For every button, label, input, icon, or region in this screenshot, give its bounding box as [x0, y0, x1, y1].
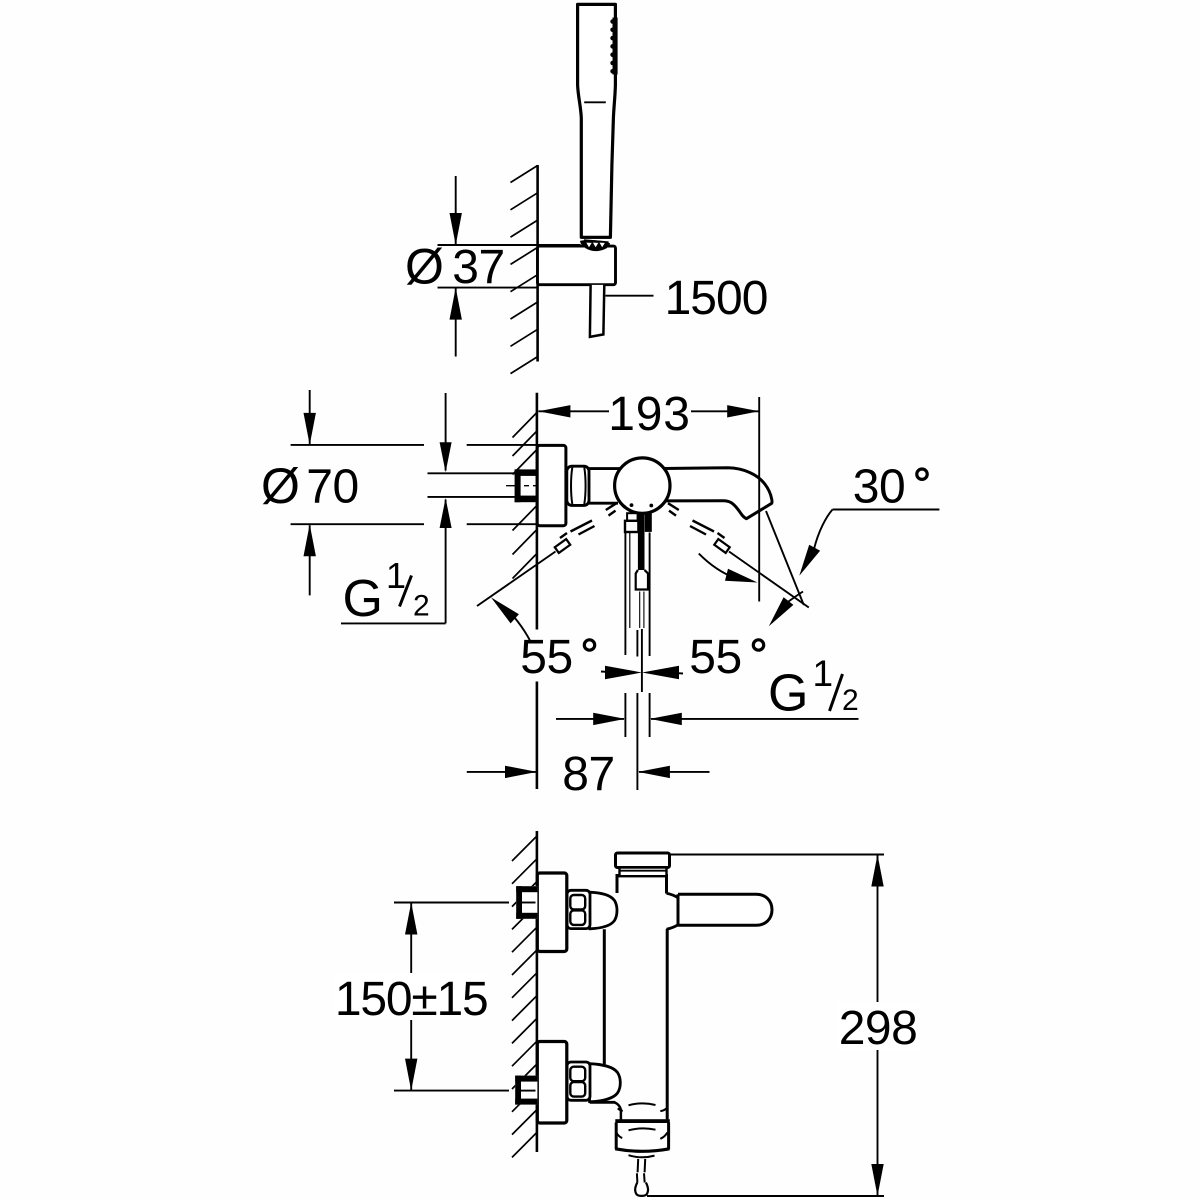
- label 150±15: [334, 973, 489, 1026]
- dimension 87: [467, 766, 710, 778]
- dimension Ø70 extension lines: [291, 445, 537, 524]
- svg-text:30: 30: [853, 461, 905, 514]
- G1/2 inlet dimension riser and arrows: [341, 393, 452, 623]
- svg-text:1: 1: [813, 653, 834, 694]
- right 55° arc with arrowhead: [699, 554, 758, 583]
- lower hex union (front): [567, 1062, 590, 1100]
- check valve dome tip: [629, 1155, 655, 1157]
- svg-text:55: 55: [520, 631, 572, 684]
- inlet pipe centerline: [506, 485, 540, 487]
- shower head spray strip (serrated): [610, 18, 617, 75]
- svg-text:55: 55: [689, 631, 741, 684]
- label 87: [562, 748, 614, 801]
- svg-text:37: 37: [452, 241, 504, 294]
- shower holder bracket: [538, 246, 616, 285]
- ball joint pivot dots: [630, 503, 654, 507]
- label 193: [608, 388, 691, 441]
- label 298: [836, 1002, 921, 1055]
- inlet pipe lines: [428, 473, 515, 497]
- hose nipple bulb: [635, 1183, 648, 1196]
- wall line (side view): [536, 393, 539, 789]
- diverter collar: [625, 513, 652, 532]
- shower hose: [590, 285, 604, 337]
- top cap: [616, 853, 670, 868]
- escutcheon (side view): [537, 445, 566, 525]
- label G1/2 (outlet): [768, 653, 859, 723]
- hose nipple stem: [637, 1159, 645, 1183]
- svg-text:2: 2: [842, 684, 859, 717]
- wall hatching (front view): [512, 836, 537, 1157]
- label 55° right: [689, 631, 763, 684]
- wall hatching (side view): [513, 413, 537, 579]
- hand shower body: [578, 4, 616, 237]
- internal seat (dashed ellipse lower): [617, 1128, 668, 1138]
- wall line (front view): [536, 831, 539, 1152]
- svg-text:298: 298: [839, 1002, 918, 1055]
- spout: [663, 468, 772, 519]
- label Ø37: [405, 239, 505, 295]
- S-union hex nut (side view): [567, 466, 589, 505]
- label G1/2 (inlet): [343, 555, 430, 628]
- svg-text:Ø: Ø: [405, 239, 444, 295]
- upper hex union (front): [567, 890, 590, 928]
- svg-text:G: G: [343, 570, 383, 628]
- lever neck: [667, 893, 679, 929]
- label 30°: [853, 461, 927, 514]
- body main cylinder: [604, 929, 667, 1119]
- internal seat (dashed ellipse upper): [618, 1103, 667, 1111]
- cap ring: [620, 868, 667, 877]
- outlet extension lines under faucet: [625, 533, 649, 791]
- lower union nut (front): [515, 1076, 537, 1105]
- svg-text:1500: 1500: [665, 272, 768, 325]
- dimension 150±15 arrows: [405, 903, 417, 1091]
- svg-text:1: 1: [386, 555, 406, 596]
- svg-text:87: 87: [562, 748, 614, 801]
- wall line (top view): [536, 165, 539, 362]
- 30° leader line and arrow: [799, 510, 939, 576]
- dimension 150±15 extension lines: [394, 903, 536, 1091]
- holder cup (hatched cone seat): [581, 240, 609, 250]
- dimension Ø37 extension lines: [438, 245, 581, 288]
- label 55° left: [520, 631, 594, 684]
- faucet body tube (side view): [589, 469, 620, 504]
- label 1500: [665, 272, 768, 325]
- right shower-hose direction line (55°): [668, 503, 809, 607]
- dimension Ø70 arrows: [304, 390, 316, 595]
- dimension Ø37 arrows: [450, 176, 462, 357]
- body bottom ledge: [590, 1102, 621, 1120]
- wall hatching (top view): [511, 166, 538, 374]
- 55°/55° angle arc arrowheads (bowtie): [601, 666, 683, 679]
- handle bottom edge: [581, 237, 610, 239]
- aerator housing joint band: [615, 1119, 670, 1123]
- diverter pull rod: [636, 513, 648, 589]
- label 1500 leader line: [606, 295, 654, 297]
- svg-text:150±15: 150±15: [335, 973, 488, 1026]
- ball joint circle: [615, 458, 670, 513]
- union nut (side view): [515, 469, 538, 502]
- dimension G1/2 (outlet): [556, 713, 859, 725]
- dimension 193: [538, 397, 759, 602]
- shower head grip separation line: [584, 101, 606, 103]
- svg-text:2: 2: [413, 590, 430, 623]
- label Ø70: [261, 458, 359, 514]
- svg-text:193: 193: [608, 388, 691, 441]
- upper union nut (front): [516, 886, 537, 919]
- lower escutcheon (front): [537, 1042, 567, 1124]
- lever handle: [678, 894, 772, 925]
- dimension 298 extension lines: [647, 855, 884, 1197]
- upper escutcheon (front): [537, 873, 567, 952]
- left shower-hose direction line (55°): [477, 503, 617, 606]
- body upper section: [617, 874, 667, 894]
- lower connection bell: [590, 1064, 621, 1102]
- 30° arc lower arrowhead: [769, 592, 803, 627]
- spout mouth face extension line (30°): [766, 511, 804, 605]
- aerator cup: [615, 1123, 669, 1152]
- dimension 298 arrows: [871, 855, 883, 1197]
- svg-text:G: G: [768, 665, 808, 723]
- svg-text:70: 70: [306, 461, 358, 514]
- left 55° arc arrowhead: [491, 597, 531, 641]
- svg-text:Ø: Ø: [261, 458, 300, 514]
- upper connection bell: [590, 892, 618, 929]
